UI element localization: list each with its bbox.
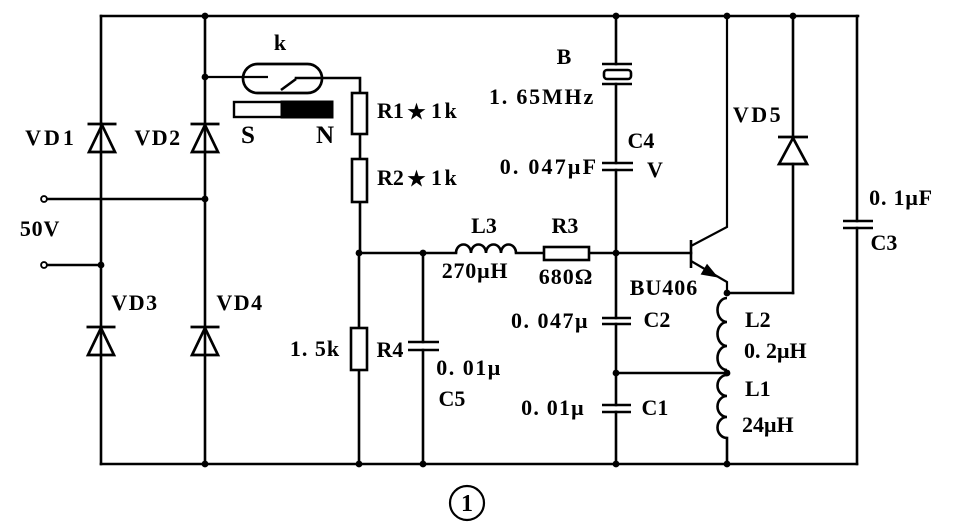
svg-text:B: B	[557, 44, 572, 69]
capacitor C5	[408, 342, 439, 350]
node C2/C1 junction	[613, 370, 620, 377]
wire R3 to base	[589, 252, 691, 255]
svg-text:24μH: 24μH	[742, 412, 794, 437]
reed switch left contact	[205, 76, 268, 78]
resistor R1	[352, 93, 367, 134]
terminal upper (50V)	[41, 196, 47, 202]
svg-text:C2: C2	[644, 307, 671, 332]
svg-text:BU406: BU406	[630, 275, 699, 300]
svg-text:270μH: 270μH	[442, 258, 509, 283]
wire crystal to C4	[615, 84, 618, 163]
node AC upper	[202, 196, 209, 203]
wire R2 to node	[359, 202, 362, 253]
svg-text:R1: R1	[377, 98, 404, 123]
wire C1 to bottom	[615, 412, 618, 464]
node emitter	[724, 290, 731, 297]
svg-text:0. 1μF: 0. 1μF	[869, 185, 933, 210]
svg-text:680Ω: 680Ω	[539, 264, 594, 289]
transistor emitter arrow	[702, 265, 717, 277]
svg-text:VD3: VD3	[111, 290, 158, 315]
wire right rail lower (from C3)	[856, 228, 859, 464]
node AC lower	[98, 262, 105, 269]
wire AC input lower	[48, 264, 101, 267]
svg-text:0. 01μ: 0. 01μ	[436, 355, 501, 380]
node top collector	[724, 13, 731, 20]
svg-text:R3: R3	[552, 213, 579, 238]
svg-text:R4: R4	[377, 337, 404, 362]
wire emitter node to VD5	[727, 292, 793, 295]
wire C5 branch upper	[422, 253, 425, 342]
svg-text:0. 047μ: 0. 047μ	[511, 308, 589, 333]
transistor V (BU406)	[691, 16, 727, 293]
node bottom C5	[420, 461, 427, 468]
wire C2 to C1	[615, 324, 618, 405]
diode VD5	[778, 137, 808, 164]
wire top rail	[101, 15, 858, 18]
svg-text:k: k	[274, 30, 287, 55]
wire node to L3	[359, 252, 456, 255]
svg-text:1k: 1k	[431, 98, 459, 123]
svg-text:R2: R2	[377, 165, 404, 190]
svg-text:L1: L1	[745, 376, 771, 401]
svg-text:L3: L3	[471, 213, 497, 238]
svg-text:C1: C1	[642, 395, 669, 420]
reed switch right contact	[281, 79, 296, 90]
node bottom C1	[613, 461, 620, 468]
star R1	[410, 105, 423, 117]
wire right rail upper (to C3)	[856, 16, 859, 221]
node reed left	[202, 74, 209, 81]
crystal B	[602, 64, 632, 84]
resistor R4	[351, 328, 367, 370]
wire R1 to R2	[359, 134, 362, 159]
node bottom R4	[356, 461, 363, 468]
wire AC input upper	[48, 198, 205, 201]
svg-text:V: V	[647, 157, 663, 182]
svg-text:0. 2μH: 0. 2μH	[744, 338, 807, 363]
resistor R3	[544, 247, 589, 260]
node top VD5	[790, 13, 797, 20]
svg-text:C3: C3	[871, 230, 898, 255]
svg-text:0. 047μF: 0. 047μF	[500, 154, 599, 179]
node L2/L1 junction	[724, 370, 731, 377]
wire top to VD5	[792, 16, 795, 137]
svg-text:C5: C5	[439, 386, 466, 411]
wire R4 to bottom	[358, 370, 361, 464]
svg-text:C4: C4	[628, 128, 655, 153]
inductor L2	[718, 298, 728, 370]
capacitor C2	[602, 318, 631, 324]
wire node to R4	[358, 253, 361, 328]
terminal lower (50V)	[41, 262, 47, 268]
wire node to L1/L2 junction	[616, 372, 727, 375]
figure number circle 1	[450, 486, 484, 520]
wire L3 to R3	[516, 252, 544, 255]
diode VD2	[191, 124, 220, 152]
inductor L1	[718, 375, 728, 438]
wire bottom rail	[101, 463, 857, 466]
wire top to crystal	[615, 16, 618, 64]
node C5 top	[420, 250, 427, 257]
wire L1 to bottom	[726, 438, 729, 464]
reed switch k capsule	[243, 64, 322, 93]
svg-text:VD1: VD1	[25, 125, 77, 150]
svg-text:1k: 1k	[431, 165, 459, 190]
svg-text:VD4: VD4	[216, 290, 263, 315]
wire left rail	[100, 16, 103, 464]
wire VD5 anode down	[792, 164, 795, 293]
magnet bar N pole	[281, 101, 333, 118]
diode VD3	[87, 327, 116, 355]
svg-text:VD2: VD2	[134, 125, 181, 150]
node base junction	[613, 250, 620, 257]
resistor R2	[352, 159, 367, 202]
node bottom VD4	[202, 461, 209, 468]
wire VD2/VD4 column	[204, 16, 207, 464]
star R2	[410, 172, 423, 184]
magnet bar S pole	[234, 102, 282, 117]
svg-text:0. 01μ: 0. 01μ	[521, 395, 585, 420]
wire reed to R1	[296, 78, 360, 93]
wire C4 to C2	[615, 170, 618, 318]
svg-text:50V: 50V	[20, 216, 60, 241]
node top VD2	[202, 13, 209, 20]
wire C5 branch lower	[422, 350, 425, 464]
diode VD4	[191, 327, 220, 355]
capacitor C4	[602, 163, 633, 170]
svg-text:S: S	[241, 122, 255, 149]
capacitor C3	[843, 221, 873, 228]
svg-text:1. 65MHz: 1. 65MHz	[489, 84, 595, 109]
capacitor C1	[602, 405, 631, 412]
svg-text:VD5: VD5	[733, 102, 783, 127]
node top crystal	[613, 13, 620, 20]
node R2/R4 junction	[356, 250, 363, 257]
svg-text:1: 1	[461, 491, 473, 517]
svg-text:N: N	[316, 122, 334, 149]
svg-text:L2: L2	[745, 307, 771, 332]
diode VD1	[88, 124, 117, 152]
node bottom L1	[724, 461, 731, 468]
inductor L3	[456, 245, 516, 254]
svg-text:1. 5k: 1. 5k	[290, 336, 340, 361]
